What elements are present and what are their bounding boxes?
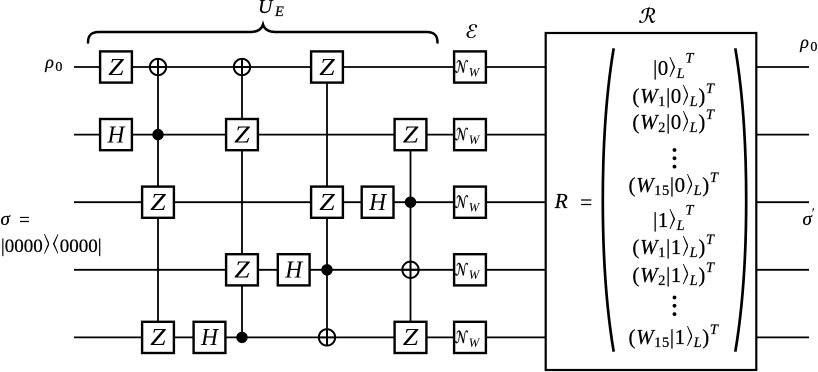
matrix row (W1|0>_L)^T [632,84,714,86]
label |0000><0000| (left) [1,234,102,254]
gate H box (q4) [278,254,310,285]
wire qubit 2 (left section) [74,134,548,136]
vertical connector column 5 (q2-q5) [410,135,412,338]
svg-text:H: H [284,258,304,284]
svg-text:Z: Z [234,122,250,148]
matrix row (W2|0>_L)^T [632,110,714,112]
control dot qubit 5 [236,332,247,343]
svg-text:W: W [469,201,481,215]
CNOT target qubit 4 [402,262,418,278]
vertical connector column 3 (q1-q5) [241,67,243,337]
recovery label script R [639,7,655,23]
svg-text:Z: Z [150,325,166,351]
gate Z box (q1 col1) [100,51,132,82]
noise gate N_W qubit 2 [454,119,486,150]
CNOT target qubit 5 [319,329,335,345]
gate Z box (q3 col4) [311,187,343,218]
wire qubit 4 (left section) [74,269,548,271]
CNOT target qubit 1 [150,59,166,75]
label sigma = (left) [1,220,30,221]
svg-text:W: W [469,133,481,147]
svg-text:Z: Z [234,258,250,284]
label U_E above brace [258,7,285,12]
noise gate N_W qubit 3 [454,187,486,218]
svg-text:W: W [469,336,481,350]
svg-text:Z: Z [150,190,166,216]
noise gate N_W qubit 4 [454,254,486,285]
label rho_0 left [45,62,62,69]
vertical dots upper [673,148,677,168]
matrix row (W1|1>_L)^T [632,235,714,237]
svg-text:Z: Z [319,55,335,81]
svg-text:Z: Z [403,122,419,148]
svg-text:Z: Z [319,190,335,216]
gate Z box (q2 col3) [226,119,258,150]
noise gate N_W qubit 5 [454,322,486,353]
label rho_0 right [800,42,817,49]
svg-text:Z: Z [403,325,419,351]
label sigma prime right [803,213,815,220]
svg-text:Z: Z [108,55,124,81]
svg-text:H: H [200,325,220,351]
matrix row (W15|1>_L)^T [628,325,718,327]
gate Z box (q2 col5) [395,119,427,150]
recovery operation box R [546,33,757,370]
wire qubit 4 (right section) [754,269,809,271]
wire qubit 3 (right section) [754,201,809,203]
noise gate N_W qubit 1 [454,51,486,82]
gate H box (q5) [194,322,226,353]
label R = inside box [555,201,593,203]
matrix row (W15|0>_L)^T [628,173,718,175]
gate Z box (q3 col2) [142,187,174,218]
gate Z box (q5 col2) [142,322,174,353]
gate Z box (q5 col5) [395,322,427,353]
svg-text:H: H [107,122,127,148]
wire qubit 1 (right section) [754,66,809,68]
wire qubit 5 (right section) [754,336,809,338]
gate Z box (q4 col3) [226,254,258,285]
gate H box (q2 col1) [100,119,132,150]
wire qubit 2 (right section) [754,134,809,136]
vertical connector column 4 (q1-q5) [326,67,328,337]
matrix left parenthesis [603,48,614,351]
svg-text:H: H [368,190,388,216]
control dot qubit 4 [321,264,332,275]
vertical connector column 2 (q1-q5) [157,67,159,337]
matrix row |1>_L^T [653,208,694,210]
gate H box (q3) [362,187,394,218]
matrix row |0>_L^T [653,56,694,58]
matrix row (W2|1>_L)^T [632,263,714,265]
wire qubit 1 (left section) [74,66,548,68]
gate Z box (q1 col4) [311,51,343,82]
control dot qubit 3 [405,197,416,208]
vertical dots lower [673,296,677,316]
CNOT target qubit 1 [234,59,250,75]
matrix right parenthesis [735,48,746,351]
svg-text:W: W [469,268,481,282]
wire qubit 5 (left section) [74,336,548,338]
control dot qubit 2 [152,129,163,140]
channel label script E [466,24,477,38]
wire qubit 3 (left section) [74,201,548,203]
U_E overbrace [88,25,438,43]
svg-text:W: W [469,65,481,79]
